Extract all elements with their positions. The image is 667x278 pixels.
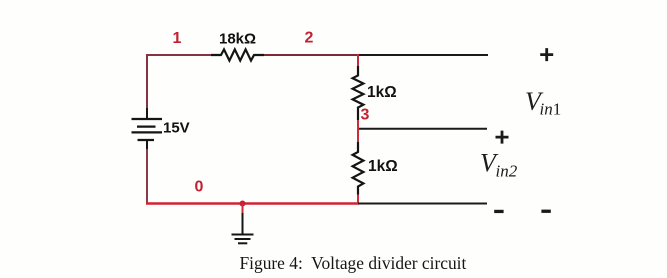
resistor R3 1k vertical zigzag bottom	[353, 142, 364, 195]
svg-text:in2: in2	[496, 162, 518, 181]
ground stub black	[242, 213, 244, 234]
wire: node2 vertical red upper stub	[357, 54, 359, 67]
battery V1 bottom lead	[146, 140, 148, 149]
minus sign Vin2	[494, 210, 503, 213]
svg-text:Figure 4: Voltage divider cir: Figure 4: Voltage divider circuit	[240, 253, 467, 273]
plus sign Vin2	[496, 131, 509, 144]
svg-text:3: 3	[361, 107, 370, 124]
battery V1 15V top lead	[146, 108, 148, 119]
ground bar long	[232, 234, 254, 236]
ground bar middle	[235, 238, 251, 240]
wire: node2 vertical red lower stub	[357, 194, 359, 205]
resistor R2 1k vertical zigzag top	[353, 66, 364, 120]
plus sign Vin1	[540, 48, 553, 61]
battery plate long lower	[132, 131, 163, 133]
ground stub red	[242, 204, 244, 214]
battery plate short upper	[137, 125, 156, 127]
svg-text:1kΩ: 1kΩ	[368, 158, 398, 175]
battery plate long top	[132, 118, 163, 120]
label Vin2	[480, 149, 518, 181]
battery plate short bottom	[138, 139, 155, 141]
resistor R1 18k horizontal zigzag	[211, 49, 264, 60]
label Vin1	[525, 87, 561, 119]
svg-text:15V: 15V	[163, 120, 190, 137]
svg-text:2: 2	[305, 30, 314, 47]
svg-text:1kΩ: 1kΩ	[367, 84, 397, 101]
junction dot node 0	[240, 201, 246, 207]
minus sign Vin1	[541, 210, 550, 213]
wire: bottom rail red	[146, 202, 359, 205]
svg-text:in1: in1	[540, 100, 562, 119]
wire: top rail left red segment node1	[147, 55, 211, 109]
wire: top rail right red segment to node 2	[263, 54, 359, 56]
wire: top output black to Vin1 plus	[358, 54, 488, 56]
wire: left vertical below battery red	[146, 149, 148, 204]
wire: bottom output black	[358, 203, 487, 205]
wire: node2 vertical red middle segment through node 3	[357, 120, 359, 143]
wire: node3 horizontal black output	[359, 128, 487, 130]
ground bar short	[238, 242, 247, 244]
svg-text:18kΩ: 18kΩ	[219, 31, 256, 48]
svg-text:1: 1	[173, 30, 182, 47]
svg-text:0: 0	[195, 179, 204, 196]
